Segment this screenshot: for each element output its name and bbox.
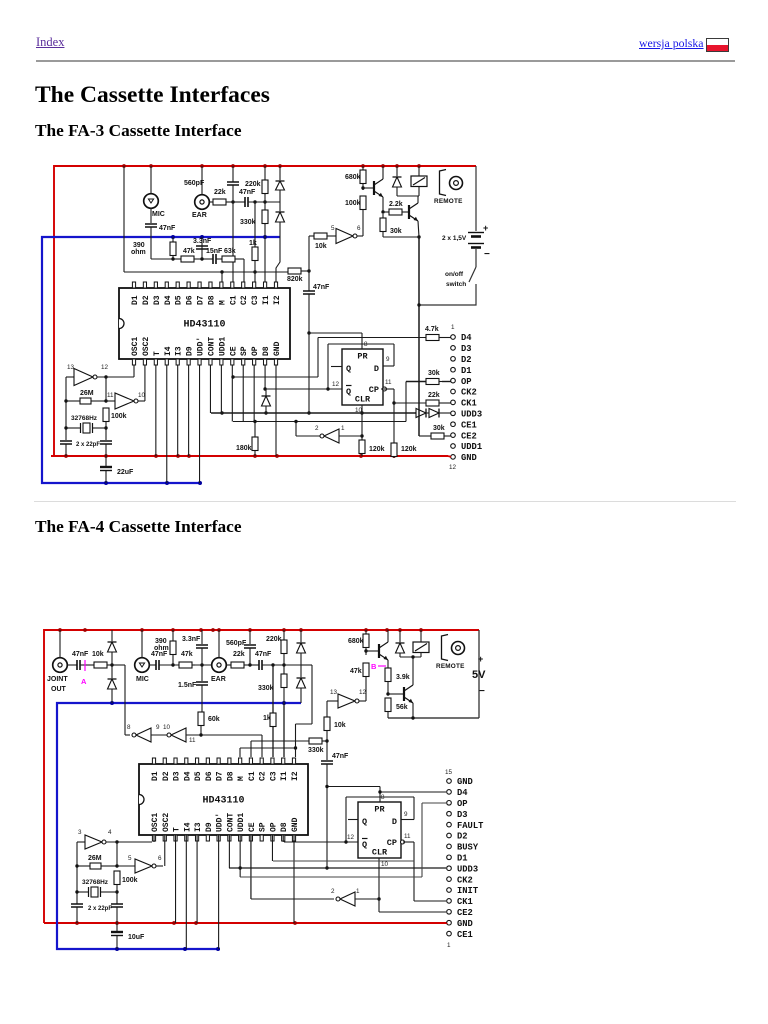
wire <box>195 664 213 666</box>
junction on red rail <box>359 454 363 458</box>
svg-text:−: − <box>484 249 490 260</box>
svg-text:1: 1 <box>341 425 345 432</box>
wire <box>399 630 401 642</box>
svg-text:+: + <box>478 654 483 664</box>
junction <box>294 746 297 749</box>
resistor 1k <box>263 713 276 728</box>
svg-text:D1: D1 <box>151 771 160 781</box>
node INIT terminal <box>447 886 479 896</box>
crystal <box>81 423 93 433</box>
node OP terminal <box>451 377 472 387</box>
svg-text:10k: 10k <box>315 243 327 250</box>
wire <box>238 258 244 260</box>
svg-text:+: + <box>483 223 488 233</box>
diode D3 <box>393 177 402 187</box>
wire pin SP down <box>242 365 244 422</box>
svg-text:D8: D8 <box>207 295 216 305</box>
svg-text:OP: OP <box>269 822 278 832</box>
svg-text:9: 9 <box>156 724 160 731</box>
capacitor 22uF electrolytic <box>100 456 134 483</box>
junction on red rail <box>231 164 235 168</box>
svg-text:CK1: CK1 <box>457 897 473 907</box>
svg-text:22uF: 22uF <box>117 469 134 476</box>
svg-text:1: 1 <box>451 324 455 331</box>
svg-text:D3: D3 <box>461 344 472 354</box>
svg-text:120k: 120k <box>401 446 417 453</box>
wire <box>216 258 222 260</box>
resistor 330k <box>308 738 325 754</box>
svg-text:2: 2 <box>331 888 335 895</box>
wire GND terminal (red) <box>446 922 448 925</box>
svg-text:EAR: EAR <box>211 676 226 683</box>
svg-text:GND: GND <box>457 919 473 929</box>
junction <box>104 399 107 402</box>
wire <box>283 665 285 674</box>
junction on red rail <box>419 628 423 632</box>
svg-text:D2: D2 <box>142 295 151 305</box>
wire <box>273 860 414 862</box>
node D3 terminal <box>447 810 468 820</box>
svg-text:CE1: CE1 <box>457 930 473 940</box>
svg-text:D1: D1 <box>461 366 472 376</box>
svg-text:12: 12 <box>101 364 109 371</box>
svg-text:30k: 30k <box>428 370 440 377</box>
wire <box>383 211 389 213</box>
junction <box>104 426 107 429</box>
wire Qbar feedback top <box>328 343 394 345</box>
svg-text:C2: C2 <box>240 295 249 305</box>
wire Qbar feedback riser <box>327 344 329 389</box>
svg-text:3.3nF: 3.3nF <box>193 238 212 245</box>
svg-text:D6: D6 <box>205 771 214 781</box>
wire <box>249 630 251 644</box>
svg-text:47nF: 47nF <box>159 225 176 232</box>
resistor 63k <box>222 248 238 262</box>
resistor 26M <box>80 398 91 404</box>
wire pin I3 to red rail <box>177 365 179 456</box>
horizontal rule <box>36 60 735 62</box>
capacitor 560pF <box>226 640 256 648</box>
svg-text:56k: 56k <box>396 704 408 711</box>
inverter gate 5-6 <box>336 229 357 244</box>
svg-text:12: 12 <box>449 464 457 471</box>
wire <box>172 257 174 259</box>
junction on red rail <box>211 628 215 632</box>
IC U1 HD43110 <box>119 282 290 365</box>
svg-text:MIC: MIC <box>136 676 149 683</box>
wire <box>300 630 302 642</box>
wire 60k branch <box>201 685 203 712</box>
junction on red rail <box>275 454 279 458</box>
svg-text:26M: 26M <box>80 390 94 397</box>
wire pin T to red rail <box>155 365 157 456</box>
junction on red rail <box>140 628 144 632</box>
svg-text:680k: 680k <box>345 174 361 181</box>
wire <box>106 400 115 402</box>
junction <box>75 890 78 893</box>
svg-text:330k: 330k <box>240 219 256 226</box>
connector JOINT <box>47 658 68 683</box>
inverter gate 11-10 <box>115 393 138 409</box>
crystal <box>89 887 101 897</box>
svg-text:D4: D4 <box>164 295 173 305</box>
node GND terminal <box>447 777 473 787</box>
wire pin I3 to red rail <box>196 835 198 923</box>
svg-text:OSC1: OSC1 <box>131 337 140 356</box>
wire Qbar feedback riser <box>345 797 347 842</box>
svg-text:MIC: MIC <box>152 211 165 218</box>
wire <box>149 664 156 666</box>
wire pin I4 to blue rail <box>166 365 168 483</box>
svg-text:INIT: INIT <box>457 886 479 896</box>
wire to pin I2 <box>276 237 280 283</box>
wire D4 line <box>380 791 446 793</box>
junction <box>294 420 297 423</box>
svg-text:HD43110: HD43110 <box>183 320 225 331</box>
svg-text:OSC1: OSC1 <box>151 813 160 832</box>
resistor 22k <box>213 189 229 205</box>
wire to pin OSC1 <box>133 365 135 377</box>
junction on red rail <box>104 454 108 458</box>
svg-text:Q: Q <box>346 364 351 374</box>
junction on red rail <box>381 164 385 168</box>
wire Q3 emitter <box>387 660 389 668</box>
power rail GND (red, bottom) <box>44 922 447 924</box>
svg-text:A: A <box>81 677 87 686</box>
junction <box>200 257 203 260</box>
node OP terminal <box>447 799 468 809</box>
wire <box>357 235 363 237</box>
wire <box>172 656 174 665</box>
capacitor 47nF <box>255 651 272 670</box>
capacitor 1.5nF <box>178 682 208 689</box>
wire <box>279 202 281 211</box>
junction <box>360 434 363 437</box>
heading The FA-3 Cassette Interface <box>35 121 242 141</box>
inverter gate 13-12 <box>74 369 97 386</box>
node GND terminal <box>451 453 477 463</box>
transistor Q3 <box>379 642 388 660</box>
node CK2 terminal <box>447 875 473 885</box>
junction on red rail <box>417 164 421 168</box>
inverter gate 2-1 <box>320 429 339 443</box>
wire EAR supply <box>201 166 203 195</box>
wire CP <box>403 841 414 843</box>
junction on red rail <box>154 454 158 458</box>
svg-text:CK1: CK1 <box>461 399 477 409</box>
wire Q4 emitter <box>412 703 414 718</box>
node CE1 terminal <box>451 420 477 430</box>
wire pin CE down <box>250 835 252 899</box>
svg-text:I3: I3 <box>194 822 203 832</box>
diode D9 <box>297 643 306 653</box>
transistor Q1 <box>374 179 383 197</box>
wire <box>264 202 266 210</box>
junction on red rail <box>392 454 396 458</box>
svg-text:15: 15 <box>445 769 453 776</box>
wire Q4 base <box>388 693 404 695</box>
wire <box>251 740 309 742</box>
svg-text:CE: CE <box>248 822 257 832</box>
capacitor 22pF (a) <box>60 441 72 444</box>
svg-text:120k: 120k <box>369 446 385 453</box>
resistor 680k <box>345 170 366 185</box>
wire <box>283 630 285 640</box>
svg-text:8: 8 <box>127 724 131 731</box>
capacitor 47nF <box>145 224 176 232</box>
node UDD1 terminal <box>451 442 482 452</box>
svg-text:13: 13 <box>67 364 75 371</box>
wire <box>172 237 174 242</box>
wire <box>226 664 231 666</box>
wire <box>77 841 85 843</box>
wire <box>111 689 113 703</box>
wire <box>66 427 80 429</box>
svg-text:D4: D4 <box>457 788 468 798</box>
wire Q1 base <box>363 187 374 189</box>
connector EAR <box>211 658 226 683</box>
wire <box>265 406 267 413</box>
node FAULT terminal <box>447 821 484 831</box>
inverter gate 2-1 <box>336 892 355 906</box>
wire <box>150 208 152 223</box>
wire <box>419 435 431 437</box>
svg-text:FAULT: FAULT <box>457 821 484 831</box>
node D4 terminal <box>447 788 469 798</box>
svg-text:47k: 47k <box>181 651 193 658</box>
svg-text:2: 2 <box>315 425 319 432</box>
resistor 1k <box>249 240 258 262</box>
junction on red rail <box>248 628 252 632</box>
wire Qbar feedback top <box>346 796 414 798</box>
svg-text:CONT: CONT <box>207 337 216 356</box>
diode D11 <box>396 643 405 653</box>
capacitor 47nF <box>151 651 168 670</box>
node CE1 terminal <box>447 930 473 940</box>
wire Q3 base <box>366 650 379 652</box>
wire <box>201 648 203 665</box>
wire <box>77 865 90 867</box>
wire <box>172 630 174 641</box>
junction on blue rail <box>115 947 119 951</box>
wire pin I4 to blue rail <box>185 835 187 949</box>
power rail V+ (red) <box>44 630 479 923</box>
svg-text:Q: Q <box>362 840 367 850</box>
wire MIC signal down <box>150 227 152 259</box>
svg-text:3.3nF: 3.3nF <box>182 636 201 643</box>
wire <box>105 423 107 440</box>
junction on red rail <box>200 164 204 168</box>
svg-text:1k: 1k <box>263 715 271 722</box>
node D2 terminal <box>451 355 472 365</box>
wire <box>447 435 451 437</box>
svg-text:C2: C2 <box>259 771 268 781</box>
junction <box>253 200 256 203</box>
resistor 47k <box>179 651 195 668</box>
wire CE to D4 riser <box>233 376 318 378</box>
wire pin UDD to blue rail <box>199 365 201 483</box>
resistor 220k <box>245 180 268 195</box>
junction <box>307 411 310 414</box>
wire to PR pin 8 <box>361 333 363 349</box>
junction <box>115 840 118 843</box>
svg-text:OSC2: OSC2 <box>142 337 151 356</box>
svg-text:32768Hz: 32768Hz <box>82 879 109 886</box>
wire <box>361 454 363 457</box>
wire <box>393 344 395 366</box>
svg-text:9: 9 <box>386 356 390 363</box>
resistor 4.7k <box>425 326 442 341</box>
wire <box>397 195 419 197</box>
wire <box>254 202 256 247</box>
IC U3 HD43110 <box>139 758 308 841</box>
junction <box>231 200 234 203</box>
junction on red rail <box>194 921 198 925</box>
svg-text:EAR: EAR <box>192 212 207 219</box>
wire CP column <box>393 389 395 443</box>
junction <box>253 270 256 273</box>
svg-text:47nF: 47nF <box>332 753 349 760</box>
wire <box>362 185 364 190</box>
wire EAR signal node <box>248 201 280 203</box>
junction on blue rail <box>198 481 202 485</box>
node CK2 terminal <box>451 388 477 398</box>
svg-text:D9: D9 <box>205 822 214 832</box>
svg-text:2 x 22pF: 2 x 22pF <box>88 906 112 912</box>
diode D10 <box>297 678 306 688</box>
svg-text:BUSY: BUSY <box>457 843 479 853</box>
node UDD3 terminal <box>447 864 478 874</box>
resistor 120k <box>391 443 417 458</box>
wire <box>296 723 313 725</box>
wire PR riser <box>379 787 381 803</box>
wire <box>264 166 266 180</box>
wire <box>264 224 266 237</box>
wire <box>283 689 285 703</box>
svg-text:UDD1: UDD1 <box>461 442 482 452</box>
wire <box>124 665 126 735</box>
junction <box>64 426 67 429</box>
svg-text:on/off: on/off <box>445 271 464 278</box>
junction on blue rail <box>183 947 187 951</box>
wire to pin M <box>239 748 241 757</box>
wire <box>355 898 379 900</box>
wire CE line <box>233 421 406 423</box>
wire pin D8 down <box>264 365 266 389</box>
wire <box>209 201 213 203</box>
svg-text:D7: D7 <box>216 771 225 781</box>
wire <box>365 630 367 634</box>
junction <box>364 649 367 652</box>
wire <box>382 214 384 218</box>
resistor 330k <box>258 674 287 692</box>
wire <box>309 235 314 237</box>
svg-text:I1: I1 <box>280 771 289 781</box>
svg-text:CE1: CE1 <box>461 420 477 430</box>
svg-text:UDD1: UDD1 <box>218 337 227 356</box>
junction <box>307 269 310 272</box>
svg-text:5: 5 <box>128 855 132 862</box>
junction <box>411 655 414 658</box>
wire GND terminal (red) <box>448 455 451 458</box>
wire <box>111 630 113 641</box>
wire <box>116 842 118 866</box>
svg-text:D2: D2 <box>162 771 171 781</box>
junction <box>115 864 118 867</box>
svg-text:D5: D5 <box>175 295 184 305</box>
junction on red rail <box>75 921 79 925</box>
wire <box>156 865 163 867</box>
wire <box>76 907 78 923</box>
svg-text:100k: 100k <box>122 877 138 884</box>
svg-text:D9: D9 <box>186 346 195 356</box>
wire <box>66 376 74 378</box>
on/off switch <box>419 249 476 305</box>
wire <box>326 741 328 760</box>
wire <box>394 402 426 404</box>
wire <box>173 258 181 260</box>
wire pin CE chain <box>250 835 252 899</box>
junction on red rail <box>58 628 62 632</box>
capacitor 560pF <box>184 180 239 187</box>
svg-text:CLR: CLR <box>372 848 388 858</box>
junction <box>325 785 328 788</box>
wire pin GND to red rail <box>293 835 295 923</box>
svg-text:30k: 30k <box>390 228 402 235</box>
junction on red rail <box>187 454 191 458</box>
wire <box>327 700 338 702</box>
wire 5V supply <box>478 630 480 718</box>
heading The FA-4 Cassette Interface <box>35 517 242 537</box>
wire <box>418 187 420 196</box>
wire <box>200 727 202 735</box>
ground rail (blue) <box>42 237 280 483</box>
inverter gate 13-12 <box>338 694 359 708</box>
svg-text:OP: OP <box>461 377 472 387</box>
svg-text:4.7k: 4.7k <box>425 326 439 333</box>
wire OP line <box>422 802 446 804</box>
svg-text:D5: D5 <box>194 771 203 781</box>
svg-text:390: 390 <box>133 242 145 249</box>
wire <box>59 630 61 658</box>
wire <box>283 655 285 665</box>
wire <box>201 630 203 644</box>
svg-text:PR: PR <box>374 805 385 815</box>
junction on red rail <box>171 628 175 632</box>
wire pin OP down <box>271 835 273 861</box>
wire <box>138 400 145 402</box>
resistor 10k <box>314 233 330 250</box>
svg-text:I2: I2 <box>291 771 300 781</box>
junction <box>115 890 118 893</box>
junction on red rail <box>149 164 153 168</box>
wire to pin M <box>221 272 223 283</box>
resistor 100k <box>345 196 366 211</box>
capacitor 3.3nF <box>182 636 208 648</box>
junction on blue rail <box>104 481 108 485</box>
svg-text:D8: D8 <box>262 346 271 356</box>
svg-text:REMOTE: REMOTE <box>436 663 465 670</box>
svg-text:2.2k: 2.2k <box>389 201 403 208</box>
svg-text:47nF: 47nF <box>151 651 168 658</box>
svg-text:2 x 22pF: 2 x 22pF <box>76 442 100 448</box>
svg-text:15nF: 15nF <box>206 248 223 255</box>
wire to pin C3 <box>254 262 256 283</box>
wire <box>101 865 117 867</box>
junction on blue rail <box>200 235 204 239</box>
wire <box>117 865 135 867</box>
wire <box>101 891 117 893</box>
